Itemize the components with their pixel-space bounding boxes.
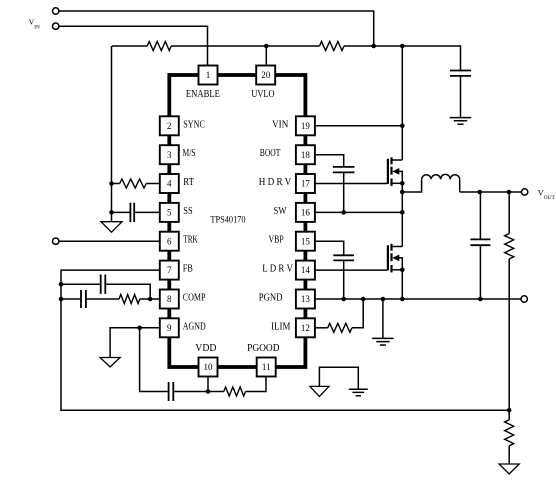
svg-text:H D R V: H D R V xyxy=(259,177,292,188)
svg-text:RT: RT xyxy=(183,177,194,188)
svg-text:1: 1 xyxy=(206,70,211,80)
svg-text:9: 9 xyxy=(167,323,172,333)
svg-text:TRK: TRK xyxy=(183,235,198,246)
svg-text:PGOOD: PGOOD xyxy=(247,343,279,354)
svg-text:20: 20 xyxy=(261,70,271,80)
svg-text:VBP: VBP xyxy=(269,235,285,246)
svg-text:PGND: PGND xyxy=(259,293,283,304)
svg-text:2: 2 xyxy=(167,121,172,131)
svg-text:ENABLE: ENABLE xyxy=(186,89,220,100)
svg-text:M/S: M/S xyxy=(183,148,196,159)
svg-text:10: 10 xyxy=(204,362,214,372)
svg-text:ILIM: ILIM xyxy=(271,321,290,332)
svg-text:VIN: VIN xyxy=(272,119,288,130)
svg-text:18: 18 xyxy=(301,150,311,160)
svg-text:19: 19 xyxy=(301,121,311,131)
svg-text:COMP: COMP xyxy=(183,293,206,304)
svg-text:SW: SW xyxy=(274,206,287,217)
svg-text:4: 4 xyxy=(167,179,172,189)
svg-text:6: 6 xyxy=(167,236,172,246)
svg-text:VDD: VDD xyxy=(195,343,216,354)
svg-text:17: 17 xyxy=(301,179,311,189)
svg-text:8: 8 xyxy=(167,294,172,304)
svg-text:SS: SS xyxy=(183,206,192,217)
svg-text:12: 12 xyxy=(301,323,310,333)
svg-text:TPS40170: TPS40170 xyxy=(210,214,246,224)
svg-text:11: 11 xyxy=(262,362,271,372)
svg-text:16: 16 xyxy=(301,208,311,218)
svg-text:BOOT: BOOT xyxy=(260,148,281,159)
svg-text:FB: FB xyxy=(183,264,193,275)
svg-text:SYNC: SYNC xyxy=(183,119,205,130)
svg-text:13: 13 xyxy=(301,294,311,304)
svg-text:3: 3 xyxy=(167,150,172,160)
svg-text:AGND: AGND xyxy=(183,321,206,332)
svg-text:7: 7 xyxy=(167,265,172,275)
svg-text:UVLO: UVLO xyxy=(251,89,274,100)
svg-text:L D R V: L D R V xyxy=(262,264,293,275)
svg-text:5: 5 xyxy=(167,208,172,218)
svg-text:15: 15 xyxy=(301,236,311,246)
svg-text:14: 14 xyxy=(301,265,311,275)
